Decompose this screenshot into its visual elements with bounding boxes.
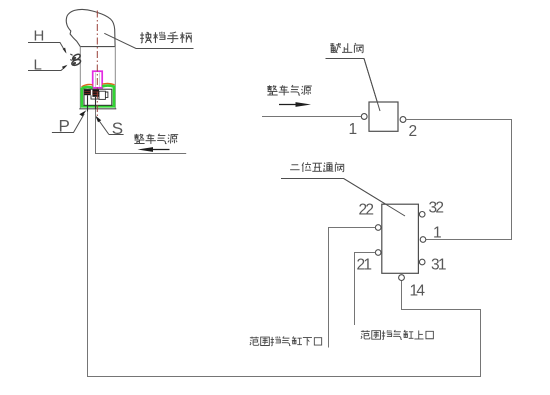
centre dash-dot axis xyxy=(96,11,98,118)
P arrowhead xyxy=(79,110,86,116)
svg-text:1: 1 xyxy=(349,121,358,138)
magenta plunger xyxy=(93,71,103,88)
label 截止阀 (shut-off valve) xyxy=(330,43,363,53)
right piston outline xyxy=(99,91,105,99)
shift handle knob outline xyxy=(66,9,115,46)
right piston step xyxy=(105,92,108,97)
S arrowhead xyxy=(95,116,101,123)
svg-text:31: 31 xyxy=(431,257,447,274)
svg-text:14: 14 xyxy=(410,283,426,300)
label 整车气源 right xyxy=(267,85,312,95)
handle neck line xyxy=(80,46,115,48)
left-pointing flow arrow xyxy=(150,149,170,151)
label 换档手柄 (shift handle) xyxy=(140,32,192,43)
svg-text:1: 1 xyxy=(433,225,442,242)
five-way valve body xyxy=(382,204,419,273)
handle body left edge xyxy=(79,47,81,109)
handle body bottom edge xyxy=(79,108,116,110)
spool cup outline xyxy=(91,95,99,99)
label 范围挡气缸下口 (range cylinder lower port) xyxy=(250,336,322,345)
shut-off valve leader tip inside body xyxy=(364,59,380,112)
S leader line with underline xyxy=(98,119,124,135)
five-way leader tip inside body xyxy=(344,179,405,217)
wire air supply to shut-off valve port 1 xyxy=(262,116,361,118)
wire port 21 to upper cylinder port xyxy=(355,253,376,326)
wire S port to air supply stub xyxy=(96,109,187,153)
L leader line with arrow xyxy=(28,66,66,71)
wire stub from centre spool xyxy=(95,97,97,110)
svg-text:H: H xyxy=(34,28,45,45)
shift handle leader line xyxy=(104,33,193,48)
port 1 circle xyxy=(420,237,426,243)
svg-text:32: 32 xyxy=(429,200,445,217)
shut-off valve port 1 circle xyxy=(361,114,367,120)
svg-text:21: 21 xyxy=(357,257,373,274)
plunger inner lines xyxy=(96,73,100,88)
H/L detent mechanism on handle side xyxy=(70,53,81,67)
H leader line with arrow xyxy=(28,43,66,53)
port 32 circle xyxy=(419,212,425,218)
inner housing rectangle xyxy=(84,89,112,105)
handle body right edge xyxy=(114,47,116,109)
port 31 circle xyxy=(419,259,425,265)
wire port 22 to lower cylinder port xyxy=(329,228,376,348)
label 范围挡气缸上口 (range cylinder upper port) xyxy=(361,330,433,339)
spool block centre (hatched) xyxy=(92,90,99,97)
five-way valve leader line xyxy=(281,179,405,217)
label 二位五通阀 (two-position five-way valve) xyxy=(290,162,344,172)
orange seal curve xyxy=(82,83,115,86)
port 22 circle xyxy=(375,225,381,231)
green valve housing frame xyxy=(82,86,114,107)
wire shut-off valve port 2 to five-way valve port 1 xyxy=(406,120,512,240)
svg-text:22: 22 xyxy=(359,202,375,219)
label 整车气源 left (vehicle air supply) xyxy=(134,134,178,144)
wire P port down, along bottom, up to five-way valve port 14 xyxy=(88,112,481,377)
shut-off valve port 2 circle xyxy=(400,117,406,123)
shut-off valve leader line xyxy=(326,59,381,112)
port 14 circle xyxy=(399,275,405,281)
port 21 circle xyxy=(375,250,381,256)
right-pointing flow arrow xyxy=(279,104,298,106)
shut-off valve body xyxy=(369,102,398,131)
spool block left (hatched) xyxy=(84,90,90,96)
svg-text:2: 2 xyxy=(409,123,418,140)
P leader line with underline xyxy=(52,114,84,133)
wire stub from left spool xyxy=(87,95,89,111)
